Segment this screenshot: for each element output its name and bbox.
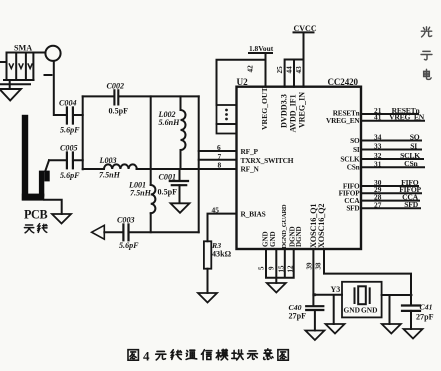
svg-text:5.6nH: 5.6nH xyxy=(159,118,181,127)
svg-text:SO: SO xyxy=(350,136,360,145)
svg-text:PCB: PCB xyxy=(24,207,47,221)
svg-text:DVDD3.3: DVDD3.3 xyxy=(280,94,289,128)
svg-text:43: 43 xyxy=(295,66,303,74)
svg-text:L003: L003 xyxy=(99,156,117,165)
svg-text:6: 6 xyxy=(217,143,221,152)
svg-text:9: 9 xyxy=(268,266,276,270)
svg-text:5.6pF: 5.6pF xyxy=(60,126,80,135)
svg-text:SMA: SMA xyxy=(14,44,32,53)
svg-text:CSn: CSn xyxy=(404,159,418,168)
svg-text:15: 15 xyxy=(278,265,286,273)
svg-text:U2: U2 xyxy=(237,77,249,87)
svg-text:7.5nH: 7.5nH xyxy=(130,189,152,198)
svg-text:Y3: Y3 xyxy=(331,285,341,294)
svg-text:5.6pF: 5.6pF xyxy=(60,171,80,180)
svg-text:34: 34 xyxy=(374,133,382,142)
svg-text:AVDD_IF1: AVDD_IF1 xyxy=(289,94,298,132)
svg-text:27: 27 xyxy=(374,200,382,209)
svg-text:4: 4 xyxy=(143,349,150,364)
svg-text:CVCC: CVCC xyxy=(294,24,317,33)
svg-text:C005: C005 xyxy=(60,143,78,152)
svg-text:27pF: 27pF xyxy=(289,312,307,321)
svg-text:31: 31 xyxy=(374,159,382,168)
svg-text:C004: C004 xyxy=(59,98,77,107)
svg-text:38: 38 xyxy=(315,262,323,270)
svg-text:GND: GND xyxy=(344,305,360,314)
svg-text:R_BIAS: R_BIAS xyxy=(241,209,266,218)
svg-text:SI: SI xyxy=(410,141,417,150)
svg-text:XOSC16_Q2: XOSC16_Q2 xyxy=(317,204,326,248)
svg-text:CSn: CSn xyxy=(347,163,360,172)
svg-text:SFD: SFD xyxy=(404,200,418,209)
svg-text:25: 25 xyxy=(276,66,284,74)
svg-text:RF_P: RF_P xyxy=(241,147,259,156)
svg-text:C001: C001 xyxy=(159,172,177,181)
svg-text:GND: GND xyxy=(269,231,277,247)
svg-text:43kΩ: 43kΩ xyxy=(212,250,232,259)
svg-text:GND: GND xyxy=(361,305,377,314)
svg-text:42: 42 xyxy=(247,65,255,73)
svg-text:1.8Vout: 1.8Vout xyxy=(249,44,274,53)
svg-text:DGND_GUARD: DGND_GUARD xyxy=(281,204,288,248)
svg-text:VREG_EN: VREG_EN xyxy=(389,113,425,122)
svg-text:45: 45 xyxy=(212,206,220,215)
svg-text:41: 41 xyxy=(374,113,382,122)
svg-text:12: 12 xyxy=(287,265,295,273)
svg-text:SFD: SFD xyxy=(346,204,359,213)
svg-text:0.5pF: 0.5pF xyxy=(158,188,178,197)
svg-text:C003: C003 xyxy=(117,215,135,224)
svg-text:33: 33 xyxy=(374,142,382,151)
svg-text:27pF: 27pF xyxy=(416,313,434,322)
svg-text:VREG_EN: VREG_EN xyxy=(326,116,360,125)
svg-text:SO: SO xyxy=(410,132,420,141)
svg-text:SI: SI xyxy=(353,145,360,154)
svg-text:VREG_OUT: VREG_OUT xyxy=(260,86,269,130)
svg-text:C002: C002 xyxy=(107,82,125,91)
svg-text:44: 44 xyxy=(286,66,294,74)
svg-text:DGND: DGND xyxy=(295,226,303,247)
svg-text:C41: C41 xyxy=(420,303,433,312)
svg-text:5: 5 xyxy=(258,266,266,270)
svg-text:39: 39 xyxy=(306,262,314,270)
svg-text:8: 8 xyxy=(218,160,222,169)
svg-text:7.5nH: 7.5nH xyxy=(99,171,121,180)
svg-text:5.6pF: 5.6pF xyxy=(119,241,139,250)
svg-text:RF_N: RF_N xyxy=(241,164,260,173)
svg-text:0.5pF: 0.5pF xyxy=(109,106,129,115)
svg-text:VREG_IN: VREG_IN xyxy=(298,92,307,128)
svg-text:CC2420: CC2420 xyxy=(328,77,359,87)
